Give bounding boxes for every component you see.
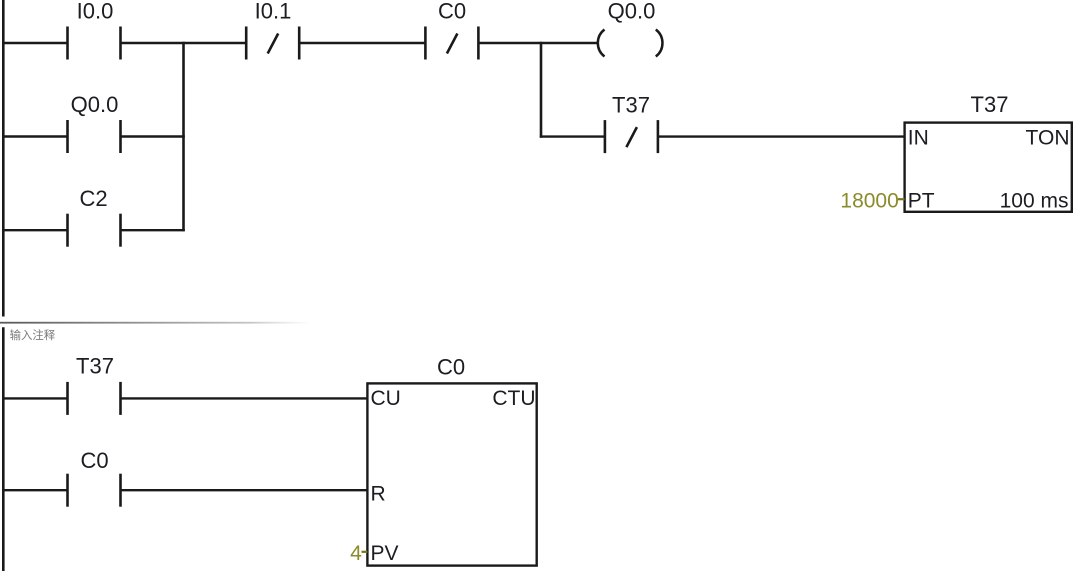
- branch vertical junction A: [182, 42, 185, 232]
- svg-text:输入注释: 输入注释: [10, 328, 56, 342]
- contact I0.1 (NC): [246, 27, 299, 60]
- contact C0 (NC): [425, 27, 478, 60]
- wire branch to T37 contact: [540, 135, 605, 137]
- svg-text:I0.1: I0.1: [255, 0, 292, 24]
- contact I0.0: [68, 27, 121, 60]
- wire T37 to counter box CU: [121, 397, 368, 399]
- branch vertical junction B (down from coil line): [540, 42, 543, 138]
- svg-text:TON: TON: [1026, 127, 1070, 150]
- wire C0 to counter box R: [121, 489, 368, 491]
- svg-text:C0: C0: [438, 0, 466, 24]
- wire C0 to coil: [478, 42, 597, 44]
- svg-text:18000: 18000: [840, 190, 898, 213]
- wire I0.1 to C0: [299, 42, 425, 44]
- svg-text:T37: T37: [76, 353, 114, 378]
- left power rail network 1: [2, 0, 5, 317]
- wire I0.0 to I0.1: [121, 42, 247, 44]
- svg-text:T37: T37: [971, 92, 1009, 117]
- timer box T37 TON: [905, 123, 1072, 212]
- svg-text:Q0.0: Q0.0: [71, 92, 119, 117]
- svg-text:CU: CU: [371, 387, 401, 410]
- tick 4 to PV: [362, 551, 368, 553]
- wire T37 to timer box: [658, 135, 905, 137]
- svg-text:PV: PV: [371, 542, 399, 565]
- wire rung1 rail to I0.0: [2, 42, 67, 44]
- coil Q0.0: [598, 30, 663, 57]
- svg-text:4: 4: [350, 542, 362, 565]
- wire Q0.0 to branch: [121, 135, 185, 137]
- svg-text:IN: IN: [908, 127, 929, 150]
- svg-text:C2: C2: [79, 186, 107, 211]
- wire rung2 rail to Q0.0: [2, 135, 67, 137]
- svg-text:R: R: [371, 483, 386, 506]
- wire rung3 rail to C2: [2, 229, 67, 231]
- contact Q0.0: [68, 120, 121, 153]
- counter box C0 CTU: [367, 383, 536, 565]
- network separator: [0, 322, 312, 324]
- tick 18000 to PT: [898, 198, 905, 200]
- wire rail to C0 bottom: [2, 489, 67, 491]
- wire rail to T37 bottom: [2, 397, 67, 399]
- svg-text:100 ms: 100 ms: [1000, 190, 1069, 213]
- svg-text:C0: C0: [437, 355, 465, 380]
- svg-text:Q0.0: Q0.0: [608, 0, 656, 23]
- svg-text:C0: C0: [80, 448, 108, 473]
- svg-text:CTU: CTU: [492, 387, 535, 410]
- wire C2 to branch: [121, 229, 185, 231]
- contact T37 bottom: [68, 382, 121, 415]
- contact C0 bottom: [68, 474, 121, 507]
- svg-text:T37: T37: [612, 93, 650, 118]
- contact T37 (NC): [605, 120, 658, 153]
- contact C2: [68, 214, 121, 247]
- left power rail network 2: [2, 327, 5, 571]
- svg-text:PT: PT: [908, 190, 935, 213]
- svg-text:I0.0: I0.0: [77, 0, 114, 24]
